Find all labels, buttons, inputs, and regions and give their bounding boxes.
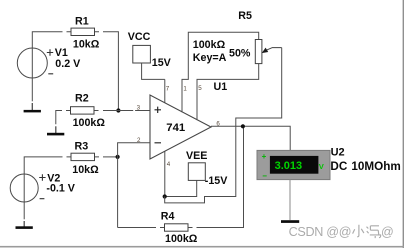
svg-text:R3: R3: [75, 141, 89, 153]
VEE power symbol: [188, 163, 205, 181]
sheet border right: [403, 0, 404, 248]
wire U2 bottom to ground: [289, 180, 291, 220]
svg-text:100kΩ: 100kΩ: [165, 233, 198, 245]
wire V2 top to R3: [24, 157, 62, 202]
ground under V1: [24, 103, 41, 112]
svg-text:10kΩ: 10kΩ: [73, 38, 100, 50]
svg-text:10kΩ: 10kΩ: [72, 164, 99, 176]
svg-text:3: 3: [137, 104, 141, 111]
resistor R1: [67, 28, 100, 35]
source V2: [10, 174, 45, 202]
svg-text:@: @: [381, 225, 394, 239]
svg-text:50%: 50%: [229, 48, 251, 60]
op-amp U1 pin stubs: [165, 79, 197, 195]
svg-text:4: 4: [167, 161, 171, 168]
svg-text:-15V: -15V: [205, 175, 228, 187]
sheet border bottom: [0, 246, 404, 248]
node A junction dot: [116, 108, 120, 112]
potentiometer R5: [255, 40, 281, 64]
wire V1 top to R1: [32, 32, 62, 78]
wire VEE down to pin4 net: [165, 180, 197, 196]
svg-text:3.013: 3.013: [275, 160, 303, 172]
watermark CSDN: [289, 225, 394, 239]
op-amp U1 741: [150, 95, 211, 159]
wire VCC to pin 7: [142, 63, 165, 79]
svg-text:1: 1: [183, 85, 187, 92]
VCC power symbol: [133, 45, 151, 63]
ground under V2: [16, 221, 33, 229]
svg-text:R2: R2: [75, 93, 89, 105]
svg-text:VCC: VCC: [128, 31, 151, 43]
wire V2 bottom: [23, 202, 25, 219]
multimeter U2: [257, 150, 330, 180]
ground under R2: [47, 126, 64, 135]
wire R1 right down to node A: [103, 32, 118, 111]
svg-text:−: −: [262, 171, 267, 180]
node C junction dot pin4/VEE: [163, 194, 167, 198]
resistor R4: [118, 224, 193, 231]
wire R5 wiper to VEE net: [165, 48, 282, 203]
svg-text:100kΩ: 100kΩ: [73, 117, 106, 129]
svg-text:5: 5: [198, 85, 202, 92]
svg-text:U1: U1: [214, 81, 228, 93]
svg-text:R1: R1: [75, 15, 89, 27]
wire R3 right to node B: [103, 156, 118, 158]
wire node A to pin 3: [103, 110, 150, 112]
svg-text:100kΩ: 100kΩ: [193, 39, 226, 51]
wire output pin 6 to U2: [211, 126, 290, 150]
source V1: [17, 48, 53, 78]
wire pin 5 to R5 bottom: [197, 64, 259, 121]
svg-text:CSDN @@: CSDN @@: [289, 225, 352, 239]
svg-text:-0.1 V: -0.1 V: [46, 183, 75, 195]
node D output junction dot: [241, 124, 245, 128]
ground under U2: [281, 220, 299, 223]
resistor R3: [67, 153, 100, 160]
svg-text:R5: R5: [238, 10, 252, 22]
wire R2 left to ground: [56, 111, 62, 125]
node B junction dot: [116, 155, 120, 159]
wire feedback vertical and pin 2: [118, 143, 150, 228]
svg-text:15V: 15V: [152, 57, 172, 69]
svg-text:VEE: VEE: [186, 150, 207, 162]
svg-text:7: 7: [166, 85, 170, 92]
svg-text:DC: DC: [330, 160, 347, 173]
wire R4 right up to output: [197, 126, 244, 227]
wire pin 1 to R5 top: [182, 32, 259, 112]
wire V1 bottom: [31, 78, 33, 101]
svg-text:0.2 V: 0.2 V: [55, 58, 81, 70]
svg-text:R4: R4: [161, 210, 175, 222]
svg-text:741: 741: [166, 122, 185, 134]
resistor R2: [66, 107, 99, 114]
svg-text:Key=A: Key=A: [193, 52, 227, 64]
svg-text:+: +: [262, 152, 267, 161]
svg-text:2: 2: [137, 137, 141, 144]
svg-text:U2: U2: [331, 146, 345, 158]
svg-text:10MOhm: 10MOhm: [351, 160, 400, 173]
